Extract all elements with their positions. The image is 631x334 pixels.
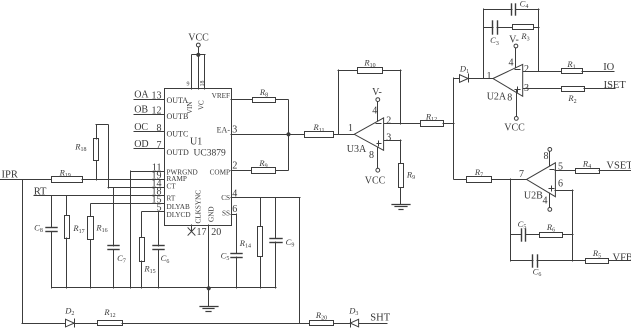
svg-text:OA: OA bbox=[134, 90, 149, 101]
svg-text:R20: R20 bbox=[315, 310, 327, 322]
svg-text:8: 8 bbox=[157, 123, 162, 134]
svg-text:C8: C8 bbox=[34, 222, 43, 234]
svg-text:SHT: SHT bbox=[370, 312, 390, 323]
svg-text:2: 2 bbox=[386, 115, 391, 126]
svg-text:OUTB: OUTB bbox=[167, 112, 189, 121]
svg-text:R14: R14 bbox=[239, 238, 251, 250]
svg-text:OUTA: OUTA bbox=[167, 96, 189, 105]
svg-text:C7: C7 bbox=[117, 253, 126, 265]
svg-text:CS: CS bbox=[221, 194, 230, 202]
svg-text:R17: R17 bbox=[72, 223, 84, 235]
svg-text:UC3879: UC3879 bbox=[194, 148, 226, 158]
svg-text:U3A: U3A bbox=[347, 144, 367, 155]
svg-text:4: 4 bbox=[509, 58, 514, 69]
svg-text:D1: D1 bbox=[459, 63, 469, 75]
svg-text:R1: R1 bbox=[566, 59, 575, 71]
svg-text:U2B: U2B bbox=[524, 190, 543, 201]
svg-text:17: 17 bbox=[197, 227, 207, 238]
svg-text:IO: IO bbox=[603, 62, 614, 73]
svg-text:8: 8 bbox=[369, 150, 374, 161]
svg-text:V-: V- bbox=[509, 35, 519, 46]
svg-text:8: 8 bbox=[544, 151, 549, 162]
svg-text:C6: C6 bbox=[161, 253, 170, 265]
svg-text:20: 20 bbox=[211, 227, 221, 238]
svg-text:R11: R11 bbox=[313, 122, 325, 134]
svg-text:12: 12 bbox=[152, 106, 162, 117]
svg-text:DLYAB: DLYAB bbox=[167, 203, 190, 211]
svg-text:R2: R2 bbox=[567, 93, 576, 105]
svg-text:OD: OD bbox=[134, 139, 148, 150]
svg-text:R9: R9 bbox=[406, 170, 415, 182]
svg-text:SS: SS bbox=[222, 210, 230, 218]
svg-text:R12: R12 bbox=[103, 307, 115, 319]
svg-text:R7: R7 bbox=[474, 167, 483, 179]
svg-text:V-: V- bbox=[372, 87, 382, 98]
svg-text:R10: R10 bbox=[363, 58, 375, 70]
svg-text:R8: R8 bbox=[259, 87, 268, 99]
svg-text:VCC: VCC bbox=[504, 122, 525, 133]
svg-text:7: 7 bbox=[519, 169, 524, 180]
svg-text:OUTC: OUTC bbox=[167, 129, 189, 138]
svg-text:R15: R15 bbox=[143, 263, 155, 275]
svg-text:C5: C5 bbox=[518, 219, 527, 231]
svg-text:R3: R3 bbox=[520, 31, 529, 43]
svg-text:U2A: U2A bbox=[487, 92, 507, 103]
svg-text:VREF: VREF bbox=[212, 92, 230, 100]
svg-text:OB: OB bbox=[134, 104, 148, 115]
svg-text:C5: C5 bbox=[221, 250, 230, 262]
svg-text:R6: R6 bbox=[546, 222, 555, 234]
svg-text:CT: CT bbox=[167, 183, 177, 191]
svg-text:R19: R19 bbox=[59, 167, 71, 179]
svg-text:8: 8 bbox=[507, 93, 512, 104]
svg-text:EA-: EA- bbox=[217, 126, 231, 135]
svg-text:2: 2 bbox=[524, 64, 529, 75]
svg-text:D2: D2 bbox=[64, 306, 74, 318]
svg-text:CLKSYNC: CLKSYNC bbox=[195, 190, 203, 224]
svg-text:RT: RT bbox=[34, 187, 47, 198]
svg-text:VFB: VFB bbox=[613, 252, 631, 263]
svg-text:COMP: COMP bbox=[210, 169, 230, 177]
svg-text:RT: RT bbox=[167, 195, 176, 203]
svg-text:7: 7 bbox=[157, 140, 162, 151]
svg-text:6: 6 bbox=[558, 178, 563, 189]
svg-text:D3: D3 bbox=[348, 306, 358, 318]
svg-text:13: 13 bbox=[152, 91, 162, 102]
svg-text:ISET: ISET bbox=[604, 80, 627, 91]
svg-text:VCC: VCC bbox=[188, 32, 209, 43]
svg-text:VCC: VCC bbox=[365, 175, 386, 186]
svg-text:U1: U1 bbox=[190, 136, 202, 147]
svg-text:C4: C4 bbox=[520, 0, 529, 10]
svg-text:IPR: IPR bbox=[2, 170, 18, 181]
svg-text:C6: C6 bbox=[533, 266, 542, 278]
svg-text:R5: R5 bbox=[592, 248, 601, 260]
svg-text:GND: GND bbox=[208, 206, 216, 222]
svg-text:4: 4 bbox=[543, 196, 548, 207]
svg-text:VSET: VSET bbox=[606, 160, 631, 171]
svg-text:C9: C9 bbox=[286, 237, 295, 249]
svg-text:1: 1 bbox=[487, 71, 492, 82]
svg-text:R18: R18 bbox=[74, 142, 86, 154]
svg-text:R16: R16 bbox=[95, 222, 107, 234]
svg-text:OUTD: OUTD bbox=[167, 148, 189, 157]
svg-text:DLYCD: DLYCD bbox=[167, 211, 191, 219]
svg-text:C3: C3 bbox=[490, 35, 499, 47]
svg-text:OC: OC bbox=[134, 122, 148, 133]
svg-text:R9: R9 bbox=[258, 158, 267, 170]
svg-text:VC: VC bbox=[197, 100, 205, 110]
svg-text:3: 3 bbox=[386, 133, 391, 144]
svg-text:9: 9 bbox=[187, 82, 190, 88]
svg-text:R4: R4 bbox=[582, 158, 591, 170]
svg-text:R12: R12 bbox=[425, 112, 437, 124]
svg-text:4: 4 bbox=[372, 105, 377, 116]
svg-text:1: 1 bbox=[348, 123, 353, 134]
svg-text:18: 18 bbox=[200, 81, 206, 87]
